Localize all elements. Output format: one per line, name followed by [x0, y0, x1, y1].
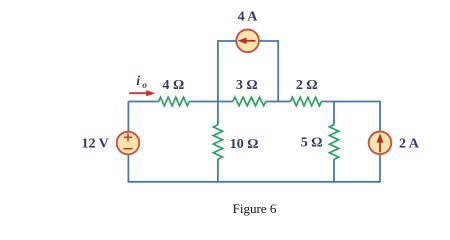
wire: bottom rail: [128, 181, 381, 183]
wire: 10-ohm branch lower stub: [217, 159, 219, 182]
wire: main horizontal node segments: [128, 101, 381, 103]
resistor R1 4-ohm: [159, 97, 190, 106]
resistor R4 10-ohm (vertical): [213, 125, 222, 159]
current source I1 4A circle with left arrow: [236, 30, 259, 53]
svg-text:10 Ω: 10 Ω: [230, 137, 259, 152]
wire: left branch vertical: [127, 102, 129, 182]
resistor R3 2-ohm: [291, 97, 322, 106]
wire: top loop left leg / 10-ohm branch upper: [217, 40, 219, 125]
svg-text:3 Ω: 3 Ω: [236, 78, 258, 93]
current arrow i_o: [129, 90, 155, 96]
svg-text:4 Ω: 4 Ω: [163, 78, 185, 93]
resistor R5 5-ohm (vertical): [329, 125, 338, 160]
svg-text:Figure 6: Figure 6: [233, 201, 277, 216]
svg-text:2 A: 2 A: [399, 137, 420, 152]
current source I2 2A circle with up arrow: [369, 132, 392, 155]
svg-text:2 Ω: 2 Ω: [296, 78, 318, 93]
wire: 5-ohm branch stubs: [333, 102, 335, 182]
svg-text:12 V: 12 V: [81, 137, 108, 152]
voltage source V1 12V circle: [117, 132, 140, 155]
resistor R2 3-ohm: [233, 97, 266, 106]
label i_o: [136, 74, 147, 91]
wire: top loop rail: [218, 40, 278, 42]
svg-text:4 A: 4 A: [238, 10, 259, 25]
wire: right branch vertical: [379, 102, 381, 182]
wire: top loop right leg: [277, 40, 279, 101]
svg-text:5 Ω: 5 Ω: [301, 136, 323, 151]
svg-text:i: i: [136, 74, 140, 89]
svg-text:o: o: [142, 81, 147, 91]
